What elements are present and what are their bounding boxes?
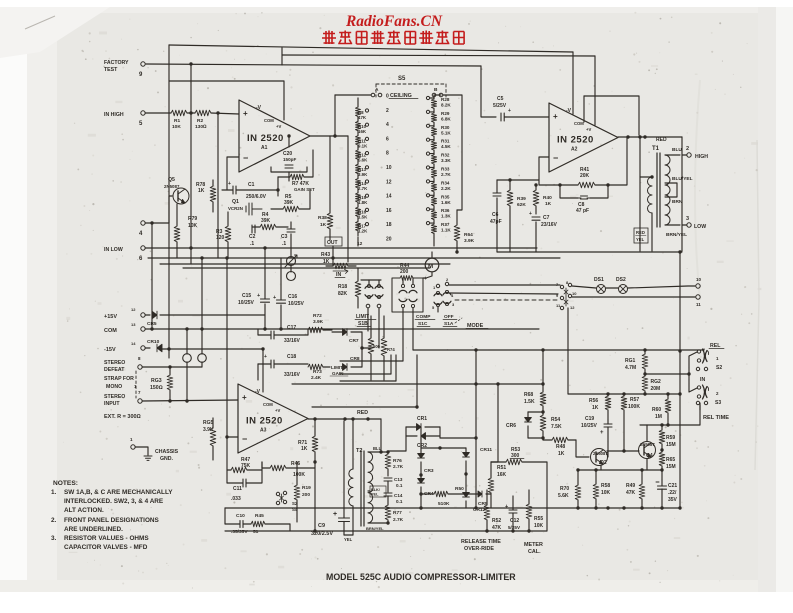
- svg-text:DS2: DS2: [616, 277, 626, 283]
- svg-text:C5: C5: [497, 96, 504, 102]
- svg-text:GND.: GND.: [160, 456, 174, 462]
- resistor R38: [318, 136, 333, 240]
- transformer T2 primary: [348, 417, 354, 535]
- wire limit row: [362, 347, 371, 349]
- svg-text:−: −: [553, 153, 558, 163]
- label IN relay: [700, 377, 705, 383]
- capacitor C21: [656, 480, 678, 508]
- resistor R62: [642, 372, 661, 395]
- wire A2 minus: [539, 157, 549, 180]
- svg-text:R51: R51: [497, 465, 506, 471]
- svg-text:RG2: RG2: [651, 379, 662, 385]
- model title: [326, 572, 516, 582]
- wire bias bus: [568, 308, 680, 394]
- wire top bus 2: [282, 55, 595, 56]
- svg-text:FRONT PANEL DESIGNATIONS: FRONT PANEL DESIGNATIONS: [64, 517, 160, 524]
- wire q4 collector: [646, 425, 648, 441]
- label RED t1: [656, 137, 667, 143]
- wire factory test run: [146, 48, 496, 117]
- svg-text:LIMIT: LIMIT: [356, 314, 369, 320]
- wire q2 base: [576, 440, 589, 457]
- svg-text:5.6K: 5.6K: [358, 158, 368, 163]
- svg-text:2.4K: 2.4K: [311, 375, 322, 381]
- label meter cal: [524, 542, 543, 555]
- svg-text:IN 2520: IN 2520: [557, 135, 594, 146]
- svg-text:12: 12: [131, 307, 136, 312]
- svg-text:R36: R36: [441, 208, 450, 213]
- wire br frame left: [440, 350, 478, 510]
- svg-text:12: 12: [570, 305, 575, 310]
- dashed box S5: [376, 84, 446, 97]
- svg-text:BRN/YEL: BRN/YEL: [366, 526, 384, 531]
- wire B to C5: [443, 95, 462, 210]
- svg-text:R43: R43: [321, 252, 330, 258]
- svg-text:R33: R33: [441, 167, 450, 172]
- resistor R44: [392, 263, 423, 312]
- svg-text:.033: .033: [231, 496, 241, 502]
- label factory test: [104, 60, 129, 73]
- svg-text:R65: R65: [666, 457, 675, 463]
- relay contact S2: [697, 349, 722, 371]
- svg-text:DEFEAT: DEFEAT: [104, 367, 125, 373]
- svg-text:320/2.5V: 320/2.5V: [311, 531, 333, 537]
- svg-text:R32: R32: [441, 153, 450, 158]
- svg-text:2: 2: [686, 146, 689, 152]
- diode CR4: [418, 473, 434, 508]
- wire A1 out riser: [334, 95, 336, 136]
- svg-text:16K: 16K: [497, 472, 507, 478]
- label BLU/YEL: [672, 176, 693, 182]
- svg-text:STEREO: STEREO: [104, 360, 125, 366]
- svg-text:5/25V: 5/25V: [493, 103, 507, 109]
- capacitor C5: [493, 96, 549, 121]
- svg-text:+: +: [264, 354, 267, 360]
- label COM: [104, 322, 136, 334]
- svg-text:COM: COM: [264, 118, 274, 123]
- capacitor C1: [222, 177, 280, 200]
- svg-text:R68: R68: [524, 392, 533, 398]
- label stereo input: [104, 390, 141, 407]
- svg-text:R58: R58: [601, 483, 610, 489]
- wire bias row 425: [640, 405, 700, 427]
- svg-text:100K: 100K: [628, 404, 640, 410]
- svg-text:CR7: CR7: [349, 338, 359, 344]
- svg-text:10/25V: 10/25V: [288, 301, 305, 307]
- svg-text:39K: 39K: [261, 218, 271, 224]
- svg-text:C7: C7: [543, 215, 550, 221]
- svg-text:R39: R39: [517, 196, 526, 202]
- svg-text:R28: R28: [441, 97, 450, 102]
- resistor R61: [625, 350, 648, 374]
- resistor R74: [381, 316, 395, 380]
- svg-text:+V: +V: [275, 408, 280, 413]
- capacitor C12: [505, 496, 521, 531]
- svg-text:R72: R72: [313, 313, 322, 319]
- wire r1-r2: [187, 112, 195, 114]
- resistor R53: [491, 447, 547, 531]
- svg-text:RG5: RG5: [203, 420, 214, 426]
- svg-text:+: +: [508, 108, 511, 114]
- wire left drop 203: [185, 256, 203, 330]
- svg-text:R50: R50: [455, 486, 464, 492]
- svg-text:C11: C11: [233, 486, 242, 492]
- svg-text:METER: METER: [524, 542, 543, 548]
- capacitor C14: [384, 493, 403, 505]
- svg-text:STEREO: STEREO: [104, 394, 125, 400]
- svg-text:12: 12: [357, 241, 363, 247]
- svg-text:1K: 1K: [558, 451, 565, 457]
- svg-text:15M: 15M: [666, 442, 676, 448]
- svg-text:15M: 15M: [666, 464, 676, 470]
- wire A1 out drop: [347, 136, 349, 262]
- svg-text:3.3K: 3.3K: [441, 158, 451, 163]
- svg-text:10K: 10K: [534, 523, 544, 529]
- resistor R60: [652, 392, 671, 425]
- svg-text:DS1: DS1: [594, 277, 604, 283]
- svg-text:REL TIME: REL TIME: [703, 415, 729, 421]
- jack pair 1: [696, 367, 707, 370]
- svg-text:20M: 20M: [651, 386, 661, 392]
- capacitor C2: [249, 225, 256, 247]
- wire ds row 2: [572, 295, 701, 307]
- svg-text:100K: 100K: [293, 472, 305, 478]
- switch S2 bottom: [276, 491, 298, 512]
- svg-text:2.7K: 2.7K: [358, 186, 368, 191]
- resistor R55: [526, 490, 543, 531]
- wire br bottom bus: [466, 442, 680, 510]
- terminal 9: [139, 62, 145, 78]
- capacitor C20: [271, 134, 307, 181]
- svg-text:C15: C15: [242, 293, 251, 299]
- svg-text:RED: RED: [636, 230, 645, 235]
- capacitor C10 R45: [225, 508, 290, 535]
- svg-text:10K: 10K: [172, 124, 181, 130]
- svg-text:RG1: RG1: [625, 358, 636, 364]
- svg-text:RG3: RG3: [151, 378, 162, 384]
- svg-text:C2: C2: [249, 234, 256, 240]
- svg-text:16: 16: [386, 208, 392, 214]
- svg-text:.22/: .22/: [668, 490, 677, 496]
- svg-text:47pF: 47pF: [490, 219, 502, 225]
- ladder pin numbers: [386, 94, 392, 243]
- wire left drop 227b: [225, 256, 228, 437]
- label BLU 2 HIGH: [672, 146, 708, 160]
- capacitor C19: [581, 416, 612, 442]
- resistor R54: [540, 410, 562, 439]
- jack circle 3: [285, 255, 297, 267]
- label YEL t2: [344, 537, 353, 542]
- svg-text:+V: +V: [586, 127, 591, 132]
- svg-text:+: +: [424, 276, 427, 282]
- diode CR10: [145, 339, 265, 392]
- ladder left chain: [356, 98, 361, 246]
- svg-text:10: 10: [696, 277, 702, 282]
- wire t1 tap high: [665, 153, 691, 157]
- svg-text:-15V: -15V: [104, 347, 116, 353]
- svg-text:82K: 82K: [338, 291, 348, 297]
- resistor R59: [659, 425, 676, 450]
- wire ladder feed: [335, 94, 371, 96]
- svg-text:C9: C9: [318, 523, 325, 529]
- ladder right chain: [431, 95, 441, 246]
- svg-text:35V: 35V: [668, 497, 678, 503]
- svg-text:T1: T1: [652, 146, 660, 152]
- wire A2 out: [618, 135, 682, 138]
- label LIMIT GAIN: [330, 365, 348, 376]
- svg-text:M: M: [428, 263, 433, 270]
- svg-text:BRN/YEL: BRN/YEL: [666, 232, 687, 238]
- wire rel mid: [645, 368, 689, 380]
- wire top bus 1: [169, 45, 573, 52]
- terminal stereo defeat: [136, 365, 202, 398]
- wire cr bottom: [225, 506, 466, 509]
- capacitor C6: [490, 178, 512, 252]
- svg-text:2: 2: [386, 108, 389, 114]
- svg-text:S3: S3: [715, 400, 721, 406]
- label BRN/YEL t2: [366, 526, 384, 531]
- svg-text:2.7K: 2.7K: [393, 464, 404, 470]
- svg-text:IN HIGH: IN HIGH: [104, 112, 124, 118]
- label T2: [356, 448, 362, 454]
- resistor R47: [231, 457, 262, 473]
- svg-text:16K: 16K: [358, 129, 367, 134]
- svg-text:9.1K: 9.1K: [358, 143, 368, 148]
- svg-text:C17: C17: [287, 325, 296, 331]
- svg-text:R34: R34: [441, 180, 450, 185]
- red site title: [345, 13, 443, 30]
- svg-text:10/25V: 10/25V: [581, 423, 598, 429]
- svg-text:1.: 1.: [51, 489, 57, 496]
- wire supply rail 384: [292, 382, 543, 385]
- resistor R72: [308, 313, 332, 335]
- label MODE: [455, 318, 488, 329]
- resistor R52: [484, 490, 501, 531]
- transistor Q5: [164, 177, 189, 204]
- capacitor C7: [529, 211, 558, 252]
- wire a3 out: [308, 417, 381, 420]
- label OFF S1A: [443, 314, 457, 327]
- svg-text:47K: 47K: [626, 490, 636, 496]
- wire t1 tap low: [665, 223, 691, 227]
- svg-text:3: 3: [686, 216, 689, 222]
- svg-text:BLK/: BLK/: [371, 488, 381, 492]
- capacitor C16: [273, 258, 305, 331]
- svg-text:OFF: OFF: [444, 314, 454, 320]
- svg-text:OVER-RIDE: OVER-RIDE: [464, 546, 494, 552]
- resistor R76: [385, 452, 403, 476]
- svg-text:MODEL 525C AUDIO COMPRESSOR-LI: MODEL 525C AUDIO COMPRESSOR-LIMITER: [326, 572, 516, 582]
- terminal stereo input: [138, 399, 238, 403]
- label S5: [398, 76, 406, 82]
- capacitor C3: [281, 222, 295, 258]
- svg-text:TEST: TEST: [104, 67, 118, 73]
- svg-text:A2: A2: [571, 147, 578, 153]
- wire A2 fb top: [584, 96, 639, 135]
- svg-text:−: −: [242, 434, 247, 444]
- jack circle 4: [287, 265, 296, 281]
- svg-text:C10: C10: [236, 513, 245, 519]
- capacitor C11: [227, 470, 262, 502]
- svg-text:6.8K: 6.8K: [441, 116, 451, 121]
- capacitor C18: [258, 354, 308, 380]
- wire t1 tap mid: [665, 183, 677, 197]
- svg-text:CR6: CR6: [506, 423, 516, 429]
- resistor R49: [626, 470, 645, 508]
- label RED t2: [357, 410, 368, 416]
- svg-text:R18: R18: [338, 284, 347, 290]
- svg-text:R57: R57: [630, 397, 639, 403]
- svg-text:300: 300: [511, 453, 520, 459]
- svg-text:OUT: OUT: [327, 240, 338, 246]
- ladder left labels: [358, 109, 369, 234]
- svg-text:8.2K: 8.2K: [441, 103, 451, 108]
- label BRN: [672, 199, 683, 205]
- wire stair C: [340, 355, 391, 374]
- svg-text:120: 120: [216, 235, 225, 241]
- resistor R65: [203, 418, 216, 460]
- svg-text:R31: R31: [441, 139, 450, 144]
- svg-text:CR1: CR1: [417, 416, 427, 422]
- capacitor C9: [311, 421, 353, 537]
- svg-text:R64: R64: [464, 232, 473, 238]
- svg-text:B: B: [434, 87, 438, 93]
- svg-text:−: −: [243, 153, 248, 163]
- svg-text:S2: S2: [716, 365, 722, 371]
- svg-text:250/6.0V: 250/6.0V: [246, 194, 267, 200]
- resistor R68: [524, 348, 546, 412]
- svg-text:200: 200: [302, 492, 310, 498]
- svg-text:R19: R19: [302, 485, 311, 491]
- svg-text:62K: 62K: [517, 202, 526, 208]
- label IN: [335, 272, 345, 278]
- op-amp U-A3: [238, 384, 308, 453]
- svg-text:R48: R48: [556, 444, 565, 450]
- svg-text:C13: C13: [394, 477, 403, 482]
- label T1: [652, 146, 660, 152]
- op-amp U-A1: [239, 100, 310, 172]
- terminal chassis: [130, 437, 148, 455]
- wire q2 emitter row: [576, 466, 647, 472]
- svg-text:1.5K: 1.5K: [358, 214, 368, 219]
- resistor R58: [593, 470, 610, 508]
- svg-text:BLU: BLU: [373, 446, 382, 451]
- svg-text:14: 14: [131, 341, 136, 346]
- terminal COM: [141, 327, 145, 331]
- label BLK/YEL box: [368, 486, 386, 497]
- resistor R75: [368, 316, 380, 380]
- label -15V: [104, 341, 136, 353]
- svg-text:4.7M: 4.7M: [625, 365, 636, 371]
- svg-text:LOW: LOW: [694, 224, 706, 230]
- svg-text:1.8K: 1.8K: [358, 200, 368, 205]
- svg-text:R60: R60: [652, 407, 661, 413]
- resistor R43: [321, 252, 356, 274]
- svg-text:47K: 47K: [358, 115, 367, 120]
- label LIMIT S1B: [355, 314, 376, 327]
- svg-text:R35: R35: [441, 194, 450, 199]
- svg-text:IN: IN: [700, 377, 705, 383]
- svg-text:NOTES:: NOTES:: [53, 480, 78, 487]
- svg-text:3.9K: 3.9K: [464, 238, 475, 244]
- wire stair D: [340, 355, 396, 381]
- svg-text:S5: S5: [398, 76, 406, 82]
- svg-text:CHASSIS: CHASSIS: [155, 449, 179, 455]
- svg-text:1.6K: 1.6K: [441, 200, 451, 205]
- junction factory-A1: [189, 62, 192, 113]
- wire R51 feed: [491, 384, 498, 462]
- svg-text:C18: C18: [287, 354, 296, 360]
- svg-text:10K: 10K: [188, 223, 198, 229]
- diode CR6: [506, 412, 543, 438]
- diode CR3: [418, 448, 434, 475]
- svg-text:3.: 3.: [51, 535, 57, 542]
- wire mid bus A: [497, 251, 682, 253]
- svg-text:R38: R38: [318, 215, 327, 221]
- svg-text:R30: R30: [441, 125, 450, 130]
- svg-text:+: +: [529, 211, 532, 217]
- svg-text:0.1: 0.1: [396, 483, 403, 488]
- label stereo defeat: [104, 356, 141, 373]
- resistor R3: [216, 212, 231, 258]
- svg-text:YEL: YEL: [371, 493, 379, 497]
- resistor R7: [278, 150, 315, 192]
- svg-text:2.2K: 2.2K: [441, 186, 451, 191]
- svg-text:C3: C3: [281, 234, 288, 240]
- svg-text:YEL: YEL: [636, 237, 645, 242]
- svg-text:4.5K: 4.5K: [441, 144, 451, 149]
- svg-text:500: 500: [373, 344, 381, 349]
- svg-text:STRAP FOR: STRAP FOR: [104, 376, 134, 382]
- terminal 6: [139, 246, 145, 262]
- wire t2 tap3: [368, 522, 388, 524]
- svg-text:47 pF: 47 pF: [576, 208, 589, 214]
- wire right drop 680: [678, 250, 681, 509]
- svg-text:Q1: Q1: [232, 199, 239, 205]
- svg-text:C16: C16: [288, 294, 297, 300]
- svg-text:R40: R40: [543, 195, 552, 201]
- resistor R2: [195, 110, 211, 130]
- transformer T2 core: [361, 451, 364, 526]
- svg-text:1.1K: 1.1K: [441, 228, 451, 233]
- svg-text:11: 11: [696, 302, 701, 307]
- resistor R70: [558, 470, 581, 508]
- svg-text:EXT. R = 300Ω: EXT. R = 300Ω: [104, 414, 141, 420]
- svg-text:R79: R79: [188, 216, 197, 222]
- resistor R51: [488, 462, 506, 508]
- svg-text:+: +: [242, 393, 247, 402]
- label COMP S1C: [415, 314, 435, 327]
- svg-text:R49: R49: [626, 483, 635, 489]
- svg-text:1.5K: 1.5K: [524, 399, 535, 405]
- ladder left num 12: [357, 241, 363, 247]
- wire bottom long: [225, 524, 547, 533]
- resistor R77: [385, 505, 403, 525]
- svg-text:150Ω: 150Ω: [150, 385, 163, 391]
- terminal 5: [139, 111, 145, 127]
- svg-text:10/25V: 10/25V: [238, 300, 255, 306]
- label in low: [104, 247, 123, 253]
- diode CR5b: [478, 491, 491, 507]
- wire mid bus C: [160, 263, 450, 265]
- jack pair 2: [696, 401, 707, 404]
- svg-text:510K: 510K: [438, 501, 450, 507]
- svg-text:20K: 20K: [580, 173, 590, 179]
- diode CR11: [463, 447, 493, 474]
- svg-text:IN 2520: IN 2520: [246, 416, 283, 427]
- svg-text:CR8: CR8: [350, 356, 360, 362]
- svg-text:COMP: COMP: [416, 314, 431, 320]
- capacitor C15: [238, 246, 270, 330]
